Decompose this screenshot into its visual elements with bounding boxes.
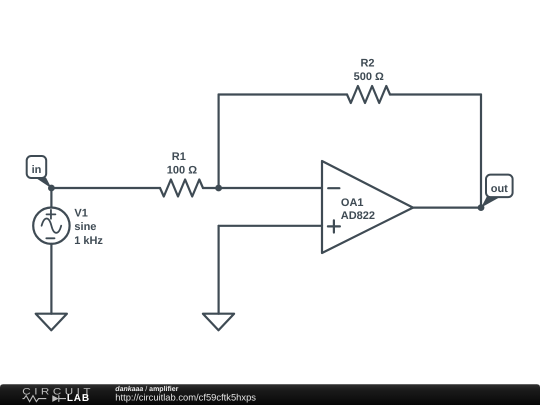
svg-text:V1: V1 — [74, 207, 87, 219]
junction node at in — [48, 185, 55, 192]
svg-text:LAB: LAB — [67, 393, 90, 404]
wire: V1 bottom to ground — [50, 244, 52, 314]
wire: op-amp non-inverting input horizontal — [219, 225, 322, 227]
V1 sine waveform — [42, 219, 62, 233]
V1 minus sign — [46, 237, 54, 239]
op-amp plus input symbol — [328, 220, 340, 232]
voltage source V1 circle — [33, 208, 69, 244]
junction node at out — [478, 204, 485, 211]
svg-text:out: out — [491, 183, 508, 195]
svg-text:sine: sine — [74, 221, 96, 233]
svg-text:R1: R1 — [172, 151, 186, 163]
resistor R2 — [347, 86, 390, 103]
wire: node in down to V1 top — [50, 188, 52, 208]
node flag in: box — [27, 156, 47, 178]
ground symbol under op-amp plus input — [203, 314, 234, 331]
wire: R1 right lead to op-amp inverting input — [203, 187, 322, 189]
node flag out: tail — [481, 196, 499, 207]
svg-text:in: in — [32, 164, 42, 176]
svg-text:500 Ω: 500 Ω — [354, 71, 384, 83]
svg-text:R2: R2 — [360, 57, 374, 69]
wire: feedback vertical from junction up — [218, 95, 220, 189]
svg-text:1 kHz: 1 kHz — [74, 235, 103, 247]
op-amp minus input symbol — [328, 187, 339, 189]
logo diode symbol — [52, 395, 58, 402]
svg-text:http://circuitlab.com/cf59cftk: http://circuitlab.com/cf59cftk5hxps — [115, 391, 256, 402]
node flag out: box — [486, 175, 513, 198]
node flag in: tail — [35, 177, 52, 188]
op-amp OA1 triangle body — [322, 161, 413, 253]
junction node at R1 / feedback — [215, 185, 222, 192]
svg-text:AD822: AD822 — [341, 210, 375, 222]
wire: right vertical down to output node — [480, 95, 482, 208]
footer bar — [0, 384, 540, 405]
resistor R1 — [160, 180, 203, 197]
svg-text:OA1: OA1 — [341, 197, 364, 209]
logo resistor squiggle — [23, 396, 47, 402]
svg-text:100 Ω: 100 Ω — [167, 164, 197, 176]
V1 plus sign — [47, 210, 56, 219]
ground symbol under V1 — [36, 314, 67, 331]
wire: R2 to right corner — [390, 93, 481, 95]
wire: non-inverting input down to ground — [218, 226, 220, 314]
wire: op-amp output to node out — [413, 207, 481, 209]
wire: node in to R1 left lead — [51, 187, 160, 189]
wire: top left segment to R2 — [219, 93, 347, 95]
